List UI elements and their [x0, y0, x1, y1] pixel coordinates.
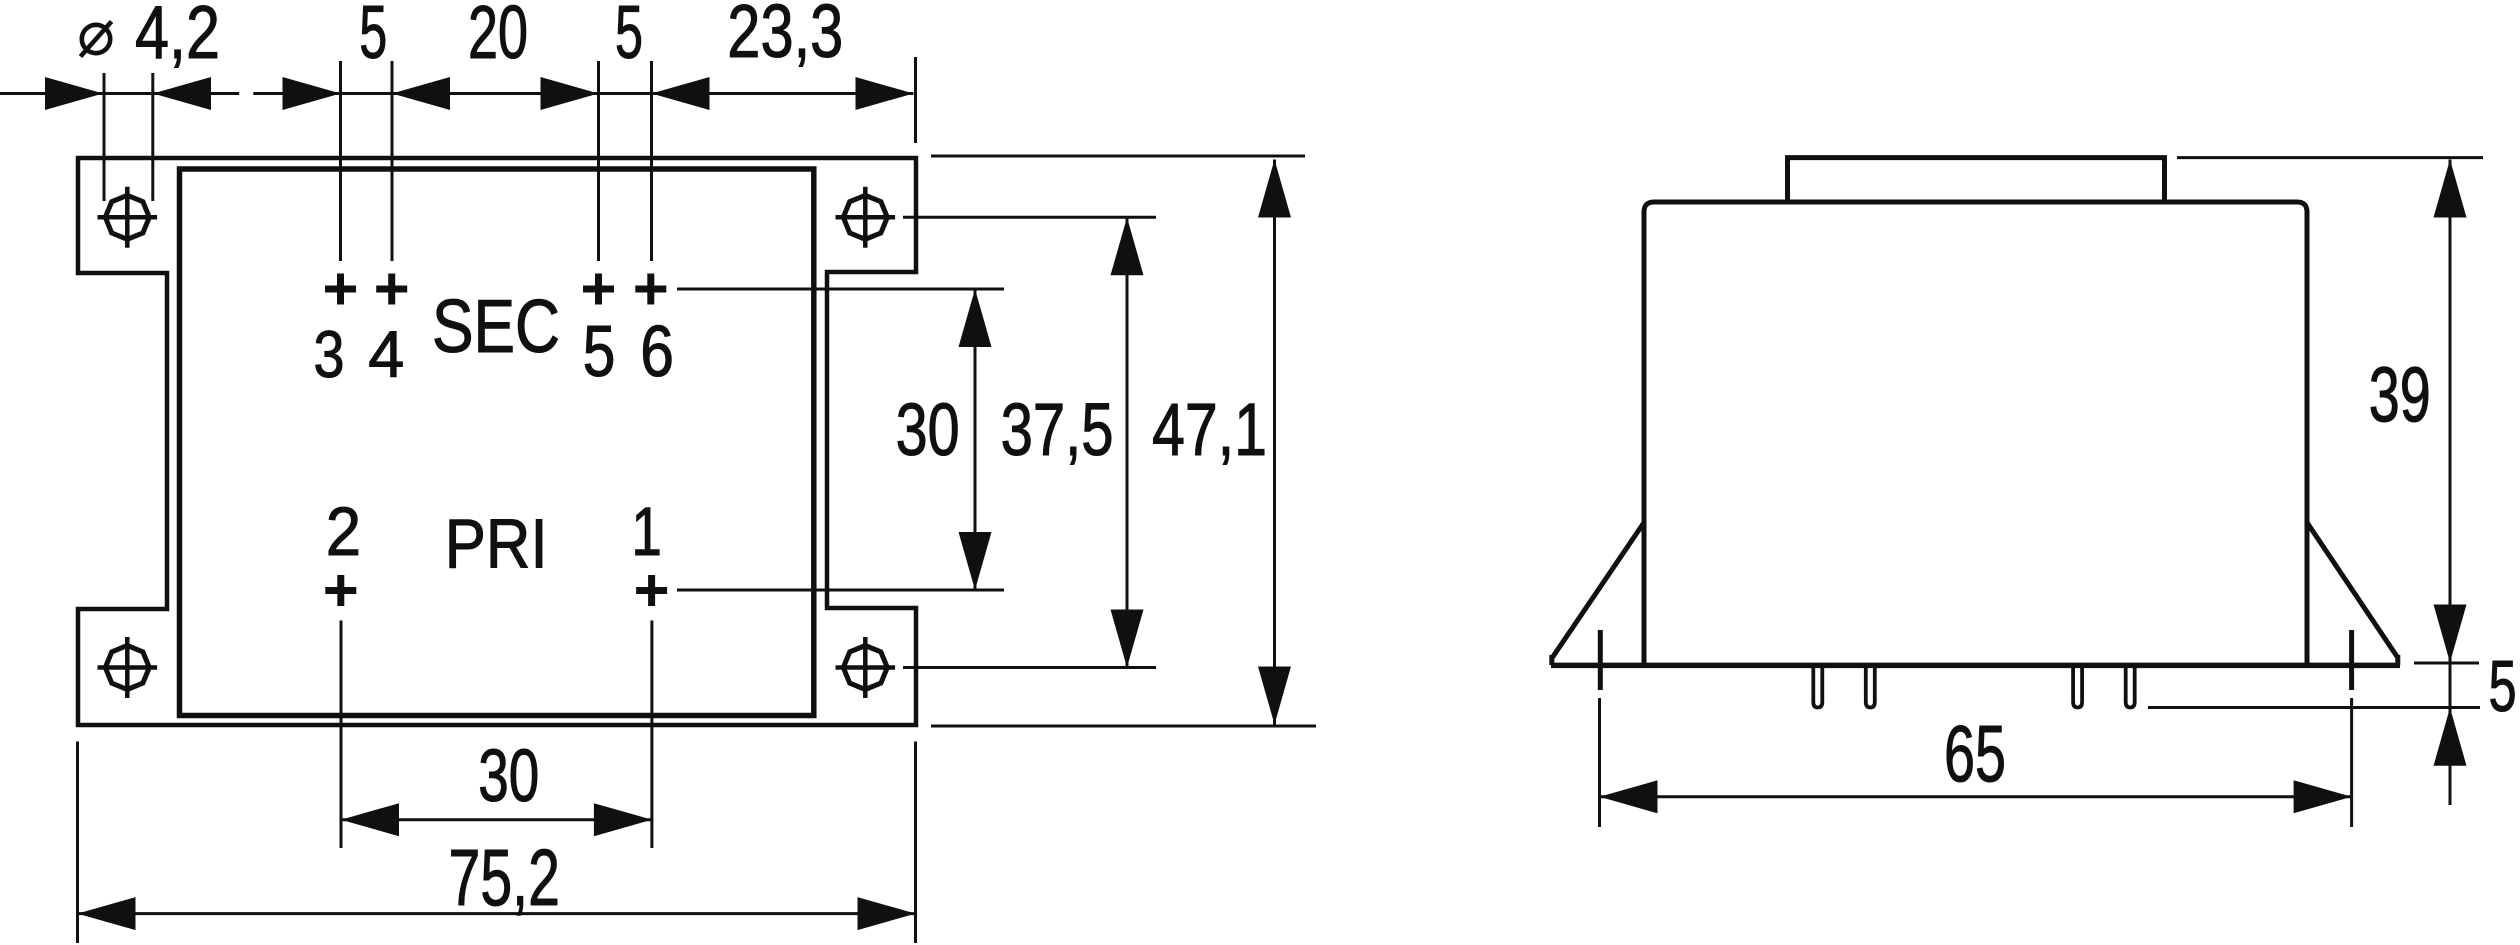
dimension line 75,2	[78, 912, 916, 915]
arrowhead 37,5 bottom	[1111, 610, 1144, 668]
mounting hole top-right	[836, 187, 896, 248]
svg-text:39: 39	[2369, 350, 2431, 438]
pin 1 cross mark	[636, 575, 667, 606]
transformer top-view flange outline	[78, 158, 916, 725]
arrowhead 39 bottom	[2434, 605, 2467, 663]
svg-text:4,2: 4,2	[135, 0, 220, 74]
top dimension line	[0, 92, 914, 95]
pin 6 cross mark	[635, 274, 666, 305]
extension line bump top right	[2177, 156, 2483, 159]
svg-text:5: 5	[2489, 647, 2517, 727]
svg-text:20: 20	[468, 0, 528, 74]
extension line base right	[2414, 662, 2479, 665]
arrowhead 20 right	[541, 77, 599, 110]
extension line flange right down	[914, 742, 917, 944]
extension line pin5 up	[597, 61, 600, 261]
arrowhead 23,3 right	[856, 77, 914, 110]
extension line pin1 right	[677, 589, 1004, 592]
mounting hole bottom-left	[98, 637, 158, 698]
extension line flange left down	[76, 742, 79, 944]
extension line hole right tangent	[151, 73, 154, 201]
side-view left flange triangle	[1552, 523, 1644, 666]
extension line flange right top	[914, 57, 917, 143]
svg-text:47,1: 47,1	[1152, 388, 1267, 471]
extension line flange top right	[931, 155, 1305, 158]
mounting hole top-left	[98, 187, 158, 248]
side-view pin 4	[1866, 667, 1875, 708]
extension line pin2 down	[340, 621, 343, 849]
dimension line 30 bottom	[341, 818, 652, 821]
arrowhead 30b right	[594, 803, 652, 836]
arrowhead 5b left	[652, 77, 710, 110]
arrowhead 30b left	[341, 803, 399, 836]
extension line lug right down	[2350, 698, 2353, 827]
svg-text:3: 3	[314, 317, 345, 391]
extension line flange bottom right	[931, 725, 1316, 728]
arrowhead 47,1 bottom	[1258, 667, 1291, 725]
arrowhead dia 4,2 right	[153, 77, 211, 110]
svg-text:6: 6	[640, 312, 674, 392]
arrowhead 75,2 right	[858, 897, 916, 930]
arrowhead 47,1 top	[1258, 160, 1291, 218]
side-view top bump	[1788, 158, 2165, 202]
extension line hole bottom right	[903, 666, 1156, 669]
arrowhead 30v bottom	[959, 532, 992, 590]
arrowhead 39 top	[2434, 160, 2467, 218]
arrowhead 20 left	[392, 77, 450, 110]
arrowhead 75,2 left	[78, 897, 136, 930]
side-view left mounting lug	[1598, 630, 1603, 690]
side-view pin 5	[2073, 667, 2082, 708]
extension line pin6 up	[650, 61, 653, 261]
pin 5 cross mark	[583, 274, 614, 305]
svg-text:37,5: 37,5	[1001, 388, 1114, 471]
pin 3 cross mark	[325, 274, 356, 305]
arrowhead dia 4,2 left	[45, 77, 103, 110]
extension line pin1 down	[650, 621, 653, 849]
svg-text:65: 65	[1944, 709, 2006, 798]
arrowhead 65 right	[2294, 780, 2352, 813]
side-view right mounting lug	[2349, 630, 2354, 690]
pin 4 cross mark	[376, 274, 407, 305]
dimension line 30 vertical	[974, 289, 977, 590]
svg-text:23,3: 23,3	[727, 0, 843, 73]
extension line hole top right	[903, 216, 1156, 219]
svg-text:2: 2	[326, 493, 361, 570]
side-view pin 6	[2126, 667, 2135, 708]
dimension line 47,1 vertical	[1273, 160, 1276, 725]
extension line pin3 up	[339, 61, 342, 261]
svg-text:5: 5	[615, 0, 643, 74]
side-view body	[1644, 202, 2307, 665]
svg-text:PRI: PRI	[445, 505, 548, 583]
svg-text:75,2: 75,2	[449, 833, 560, 922]
dimension line 37,5 vertical	[1126, 217, 1129, 667]
arrowhead 65 left	[1600, 780, 1658, 813]
svg-text:1: 1	[631, 493, 662, 570]
dimension line 65	[1600, 795, 2352, 798]
extension line lug left down	[1598, 698, 1601, 827]
svg-text:4: 4	[368, 317, 404, 391]
transformer top-view body cover	[180, 169, 814, 716]
side-view base line	[1551, 663, 2400, 669]
svg-text:5: 5	[583, 312, 616, 392]
extension line hole left tangent	[103, 73, 106, 201]
arrowhead 37,5 top	[1111, 217, 1144, 275]
arrowhead 30v top	[959, 289, 992, 347]
label diameter symbol	[81, 22, 112, 57]
pin 2 cross mark	[325, 575, 356, 606]
extension line pin4 up	[391, 61, 394, 261]
arrowhead 5 up	[2434, 708, 2467, 766]
svg-text:30: 30	[478, 734, 539, 817]
extension line pin6 right	[677, 288, 1004, 291]
svg-text:SEC: SEC	[432, 284, 560, 368]
side-view right flange triangle	[2307, 523, 2398, 666]
mounting hole bottom-right	[836, 637, 896, 698]
svg-text:30: 30	[896, 388, 960, 471]
side-view pin 3	[1813, 667, 1822, 708]
extension line pin bottom right	[2148, 706, 2480, 709]
arrowhead 5 left	[283, 77, 341, 110]
dimension line 39 vertical	[2449, 160, 2452, 806]
svg-text:5: 5	[359, 0, 387, 74]
